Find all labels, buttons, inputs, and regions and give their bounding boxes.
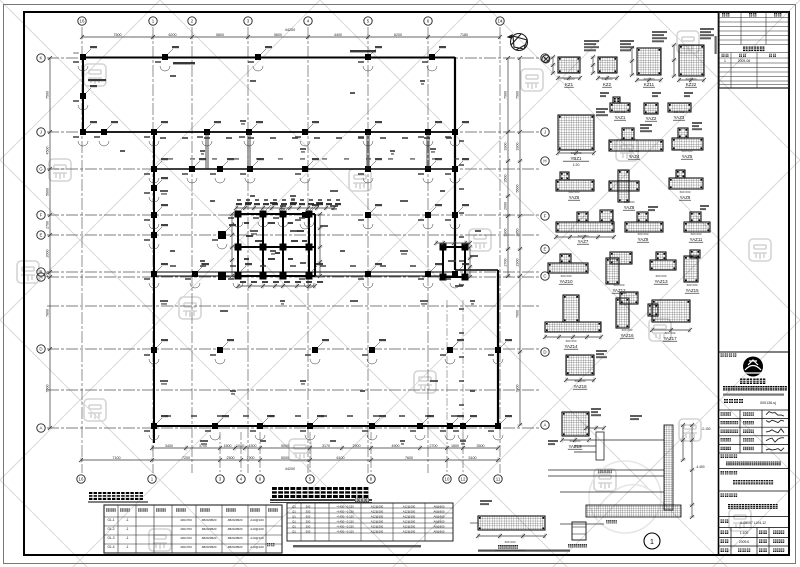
detail KZ1 bbox=[558, 57, 580, 73]
svg-text:7100: 7100 bbox=[113, 456, 121, 460]
svg-text:A: A bbox=[40, 275, 43, 280]
svg-text:G: G bbox=[39, 167, 43, 172]
svg-text:600 600: 600 600 bbox=[614, 283, 625, 287]
svg-text:-4.450~-0.150: -4.450~-0.150 bbox=[336, 510, 354, 514]
watermark circle logo bbox=[589, 461, 661, 533]
svg-text:000136-sj: 000136-sj bbox=[760, 401, 776, 405]
svg-text:4400: 4400 bbox=[334, 33, 342, 37]
section callout bubble 1 bbox=[644, 533, 660, 549]
construction unit bbox=[721, 455, 738, 458]
svg-text:1: 1 bbox=[650, 539, 654, 546]
detail YAZ16 bbox=[616, 298, 629, 328]
svg-text:1:100: 1:100 bbox=[740, 531, 749, 535]
svg-text:A10@100: A10@100 bbox=[250, 527, 264, 531]
svg-text:16: 16 bbox=[79, 477, 84, 482]
number row bbox=[721, 520, 729, 523]
svg-text:1600: 1600 bbox=[451, 444, 459, 448]
scattered annotation specks bbox=[120, 75, 481, 445]
svg-text:7600: 7600 bbox=[405, 456, 413, 460]
svg-text:A12@200: A12@200 bbox=[403, 530, 416, 534]
svg-text:600 600: 600 600 bbox=[505, 540, 516, 544]
svg-text:600 600: 600 600 bbox=[682, 149, 693, 153]
svg-text:F: F bbox=[544, 214, 547, 219]
column annotations bbox=[73, 46, 512, 440]
main left wall bbox=[153, 132, 155, 443]
bottom axis bubbles bbox=[77, 475, 85, 483]
plan vertical grid axes bbox=[82, 27, 500, 473]
svg-text:7500: 7500 bbox=[46, 91, 50, 99]
svg-text:KZ1: KZ1 bbox=[565, 82, 574, 87]
detail KZ11 bbox=[637, 48, 661, 75]
detail YAZ2 bbox=[644, 103, 658, 114]
project name section bbox=[721, 471, 738, 474]
svg-text:YAZ17: YAZ17 bbox=[663, 336, 677, 341]
title block design unit label bbox=[719, 351, 789, 353]
svg-text:600 600: 600 600 bbox=[665, 331, 676, 335]
svg-text:E: E bbox=[544, 247, 547, 252]
svg-text:600 600: 600 600 bbox=[571, 151, 582, 155]
svg-text:J: J bbox=[544, 130, 546, 135]
svg-text:YAZ8: YAZ8 bbox=[624, 205, 635, 210]
svg-text:A10@100: A10@100 bbox=[250, 536, 264, 540]
svg-text:600 600: 600 600 bbox=[615, 110, 626, 114]
top perimeter wall bbox=[83, 57, 455, 59]
svg-text:Q1: Q1 bbox=[292, 525, 296, 529]
wall section detail bbox=[548, 425, 681, 517]
svg-text:3300: 3300 bbox=[516, 143, 520, 151]
central core walls bbox=[238, 214, 315, 276]
svg-text:YAZ7: YAZ7 bbox=[578, 239, 589, 244]
row J wall bbox=[83, 131, 455, 133]
svg-text:2000: 2000 bbox=[504, 202, 508, 210]
svg-text:300: 300 bbox=[306, 510, 311, 514]
svg-text:600 600: 600 600 bbox=[691, 232, 702, 236]
core inner annotations bbox=[244, 222, 307, 260]
right lower wall bbox=[497, 270, 499, 426]
main drawing title bbox=[272, 487, 368, 498]
svg-text:Q1: Q1 bbox=[292, 515, 296, 519]
svg-text:-0.150: -0.150 bbox=[701, 427, 710, 431]
svg-text:6200: 6200 bbox=[169, 33, 177, 37]
svg-text:2900: 2900 bbox=[353, 444, 361, 448]
svg-text:GL-4: GL-4 bbox=[107, 545, 114, 549]
company logo emblem bbox=[743, 357, 763, 377]
svg-text:C: C bbox=[543, 274, 546, 279]
svg-text:2300: 2300 bbox=[516, 259, 520, 267]
row B wall bbox=[154, 271, 455, 273]
svg-text:300: 300 bbox=[306, 520, 311, 524]
right axis bubbles bbox=[541, 54, 549, 62]
svg-text:2700: 2700 bbox=[430, 444, 438, 448]
svg-text:600 600: 600 600 bbox=[638, 232, 649, 236]
bottom axis stubs bbox=[219, 432, 221, 473]
dim chain above core bbox=[236, 199, 341, 205]
svg-text:7900: 7900 bbox=[516, 91, 520, 99]
svg-text:A12@200: A12@200 bbox=[403, 520, 416, 524]
step wall right bbox=[455, 269, 498, 271]
detail YBZ1 bbox=[558, 115, 594, 150]
svg-text:16: 16 bbox=[80, 19, 85, 24]
wall table note bbox=[293, 545, 421, 547]
svg-text:3500: 3500 bbox=[504, 174, 508, 182]
svg-text:A12@200: A12@200 bbox=[371, 515, 384, 519]
left edge tiny vertical text bbox=[715, 36, 717, 54]
svg-text:7500: 7500 bbox=[114, 33, 122, 37]
detail YAZ3 bbox=[668, 103, 691, 112]
svg-text:Q1: Q1 bbox=[292, 520, 296, 524]
svg-text:600 600: 600 600 bbox=[575, 379, 586, 383]
svg-text:600 600: 600 600 bbox=[646, 111, 657, 115]
signature table bbox=[719, 410, 789, 453]
detail YAZ9a bbox=[669, 178, 703, 189]
svg-text:A12@200: A12@200 bbox=[371, 505, 384, 509]
svg-text:A-05007 LJ04-12: A-05007 LJ04-12 bbox=[740, 521, 766, 525]
svg-text:3300: 3300 bbox=[504, 142, 508, 150]
svg-text:1500: 1500 bbox=[249, 444, 257, 448]
svg-text:K: K bbox=[40, 56, 43, 61]
svg-text:-4.450~-0.150: -4.450~-0.150 bbox=[336, 505, 354, 509]
detail YAZ13 bbox=[684, 256, 698, 282]
svg-text:2500: 2500 bbox=[227, 456, 235, 460]
svg-text:2009.6: 2009.6 bbox=[739, 540, 749, 544]
svg-text:A6@600: A6@600 bbox=[434, 520, 445, 524]
svg-text:600 600: 600 600 bbox=[561, 274, 572, 278]
svg-text:600: 600 bbox=[73, 51, 78, 55]
svg-text:YAZ10: YAZ10 bbox=[559, 279, 573, 284]
right inner dimension chain bbox=[507, 58, 509, 276]
small opening detail bbox=[572, 522, 586, 540]
svg-text:A6@600: A6@600 bbox=[434, 510, 445, 514]
svg-text:14: 14 bbox=[498, 19, 503, 24]
right upper wall bbox=[454, 57, 456, 270]
svg-text:300: 300 bbox=[306, 530, 311, 534]
title block divider bbox=[718, 12, 720, 555]
bottom wall bbox=[154, 425, 498, 427]
central core columns bbox=[235, 211, 242, 218]
svg-text:YAZ19: YAZ19 bbox=[568, 444, 582, 449]
detail KZ22 bbox=[679, 45, 704, 76]
svg-text:4900: 4900 bbox=[392, 444, 400, 448]
row G wall bbox=[154, 168, 455, 170]
svg-text:2700: 2700 bbox=[46, 221, 50, 229]
english name bbox=[723, 394, 784, 396]
svg-text:12: 12 bbox=[461, 477, 466, 482]
svg-text:600 600: 600 600 bbox=[680, 190, 691, 194]
svg-text:1000: 1000 bbox=[236, 444, 244, 448]
left dimension line bbox=[49, 58, 51, 428]
svg-text:400x700: 400x700 bbox=[180, 518, 192, 522]
svg-text:-4.450~-0.150: -4.450~-0.150 bbox=[336, 530, 354, 534]
svg-text:600 600: 600 600 bbox=[687, 283, 698, 287]
svg-text:A6@600: A6@600 bbox=[434, 515, 445, 519]
bottom notes line bbox=[478, 550, 570, 552]
svg-text:1900: 1900 bbox=[247, 456, 255, 460]
svg-text:A: A bbox=[544, 423, 547, 428]
coupling beam elevation detail bbox=[478, 516, 545, 530]
detail YAZ19 bbox=[562, 412, 589, 436]
detail YAZ9 bbox=[625, 222, 663, 232]
svg-text:YBZ1: YBZ1 bbox=[571, 156, 583, 161]
svg-text:7180: 7180 bbox=[460, 33, 468, 37]
svg-text:7500: 7500 bbox=[46, 385, 50, 393]
detail KZ2 bbox=[598, 57, 617, 73]
svg-text:600 600: 600 600 bbox=[566, 339, 577, 343]
svg-text:YAZ18: YAZ18 bbox=[573, 384, 587, 389]
svg-text:3300: 3300 bbox=[504, 228, 508, 236]
svg-text:4500: 4500 bbox=[46, 147, 50, 155]
vertical dim left of core bbox=[231, 214, 233, 276]
extra unbubbled axis rows bbox=[47, 305, 540, 307]
svg-text:3500: 3500 bbox=[477, 444, 485, 448]
svg-text:YAZ14: YAZ14 bbox=[564, 344, 578, 349]
row A wall bbox=[154, 275, 455, 277]
svg-text:A12@200: A12@200 bbox=[403, 515, 416, 519]
svg-text:5600: 5600 bbox=[46, 188, 50, 196]
left upper wall bbox=[82, 57, 84, 133]
company full name bbox=[723, 386, 787, 391]
svg-text:3170: 3170 bbox=[322, 444, 330, 448]
svg-text:YAZ9: YAZ9 bbox=[638, 237, 649, 242]
detail YAZ18 bbox=[566, 355, 594, 375]
svg-text:300: 300 bbox=[306, 505, 311, 509]
svg-text:D: D bbox=[543, 350, 546, 355]
svg-text:KZ2: KZ2 bbox=[603, 82, 612, 87]
svg-text:A6@600: A6@600 bbox=[434, 505, 445, 509]
svg-text:600 600: 600 600 bbox=[622, 328, 633, 332]
detail YAZ6a bbox=[556, 180, 594, 191]
company CJK name bbox=[740, 379, 765, 385]
svg-text:2700: 2700 bbox=[504, 258, 508, 266]
svg-text:YAZ4: YAZ4 bbox=[629, 154, 640, 159]
svg-text:10: 10 bbox=[445, 477, 450, 482]
svg-text:400x700: 400x700 bbox=[180, 545, 192, 549]
GL table bbox=[104, 505, 282, 553]
detail YAZ12a bbox=[606, 258, 619, 284]
svg-text:2009-06: 2009-06 bbox=[738, 59, 751, 63]
svg-text:J: J bbox=[40, 130, 42, 135]
svg-text:600 600: 600 600 bbox=[674, 110, 685, 114]
detail YAZ11 bbox=[684, 222, 710, 232]
svg-text:Q1: Q1 bbox=[292, 505, 296, 509]
right core dims bbox=[436, 242, 470, 244]
svg-text:600 600: 600 600 bbox=[624, 200, 635, 204]
corridor partition stubs bbox=[205, 133, 207, 169]
svg-text:A12@200: A12@200 bbox=[371, 525, 384, 529]
svg-text:4B20/4B20: 4B20/4B20 bbox=[202, 545, 217, 549]
svg-text:400x700: 400x700 bbox=[180, 536, 192, 540]
svg-text:A6@600: A6@600 bbox=[434, 525, 445, 529]
svg-text:A12@200: A12@200 bbox=[371, 530, 384, 534]
svg-text:YAZ3: YAZ3 bbox=[674, 115, 685, 120]
detail YAZ17 bbox=[652, 300, 690, 322]
svg-text:4B20/4B20: 4B20/4B20 bbox=[228, 545, 243, 549]
certificate no bbox=[724, 399, 743, 403]
svg-text:300: 300 bbox=[306, 515, 311, 519]
svg-text:1:20: 1:20 bbox=[573, 163, 580, 167]
svg-text:11: 11 bbox=[496, 477, 501, 482]
svg-text:D: D bbox=[39, 347, 42, 352]
svg-text:600 600: 600 600 bbox=[656, 274, 667, 278]
svg-text:1500: 1500 bbox=[224, 444, 232, 448]
detail YAZ12 bbox=[650, 260, 676, 270]
svg-text:600 600: 600 600 bbox=[569, 190, 580, 194]
svg-text:-1: -1 bbox=[126, 518, 129, 522]
north compass bbox=[508, 34, 528, 51]
svg-text:YAZ11: YAZ11 bbox=[690, 237, 703, 242]
svg-text:YAZ15: YAZ15 bbox=[685, 288, 699, 293]
detail YAZ8 cross bbox=[609, 181, 639, 191]
svg-text:YAZ16: YAZ16 bbox=[620, 333, 634, 338]
svg-text:YAZ2: YAZ2 bbox=[646, 116, 657, 121]
plan columns bbox=[80, 54, 86, 60]
svg-text:6200: 6200 bbox=[394, 33, 402, 37]
svg-text:GL-1: GL-1 bbox=[107, 518, 114, 522]
svg-text:YAZ5: YAZ5 bbox=[682, 154, 693, 159]
svg-text:4B20/4B20: 4B20/4B20 bbox=[202, 536, 217, 540]
svg-text:600 600: 600 600 bbox=[629, 149, 640, 153]
top wall label bbox=[350, 50, 376, 52]
svg-text:5000: 5000 bbox=[281, 444, 289, 448]
detail YAZ5 bbox=[672, 138, 703, 150]
svg-text:44200: 44200 bbox=[285, 467, 295, 471]
svg-text:5800: 5800 bbox=[216, 33, 224, 37]
svg-text:6100: 6100 bbox=[337, 456, 345, 460]
svg-text:-4.450~-0.150: -4.450~-0.150 bbox=[336, 525, 354, 529]
svg-text:4B20/4B20: 4B20/4B20 bbox=[228, 518, 243, 522]
svg-text:400x700: 400x700 bbox=[180, 527, 192, 531]
svg-text:-1: -1 bbox=[126, 545, 129, 549]
detail YAZ1 bbox=[610, 103, 630, 112]
svg-text:600 600: 600 600 bbox=[578, 234, 589, 238]
svg-text:7800: 7800 bbox=[46, 309, 50, 317]
svg-text:2850: 2850 bbox=[516, 229, 520, 237]
svg-text:A12@200: A12@200 bbox=[403, 505, 416, 509]
svg-text:A10@100: A10@100 bbox=[250, 545, 264, 549]
bottom dimension lines bbox=[152, 447, 498, 449]
right side dimension column bbox=[519, 58, 521, 425]
revision table bbox=[719, 12, 789, 88]
svg-text:-4.450~-0.150: -4.450~-0.150 bbox=[336, 520, 354, 524]
svg-text:4B20/4B20: 4B20/4B20 bbox=[202, 527, 217, 531]
wall table bbox=[287, 503, 453, 541]
svg-text:A: A bbox=[40, 426, 43, 431]
svg-text:7900: 7900 bbox=[504, 91, 508, 99]
drawing name section bbox=[721, 494, 738, 497]
detail YAZ10 bbox=[548, 263, 588, 273]
svg-text:KZ22: KZ22 bbox=[686, 82, 697, 87]
svg-text:Q1: Q1 bbox=[292, 510, 296, 514]
left axis bubbles bbox=[37, 54, 45, 62]
svg-text:5000: 5000 bbox=[281, 456, 289, 460]
svg-text:KZ11: KZ11 bbox=[644, 82, 655, 87]
detail YAZ4 bbox=[609, 140, 663, 151]
svg-text:H: H bbox=[543, 159, 546, 164]
svg-text:F: F bbox=[40, 213, 43, 218]
svg-text:YAZ13: YAZ13 bbox=[654, 279, 668, 284]
svg-text:A12@200: A12@200 bbox=[403, 510, 416, 514]
isolated columns left of core bbox=[218, 231, 226, 239]
svg-text:4B20/4B20: 4B20/4B20 bbox=[202, 518, 217, 522]
svg-text:2000: 2000 bbox=[46, 250, 50, 258]
svg-text:A12@200: A12@200 bbox=[403, 525, 416, 529]
GL table title bbox=[89, 492, 143, 500]
dim chain below core bbox=[238, 285, 315, 287]
svg-text:YAZ9: YAZ9 bbox=[680, 195, 691, 200]
svg-text:44200: 44200 bbox=[285, 28, 296, 32]
svg-text:400: 400 bbox=[46, 272, 50, 278]
svg-text:-4.450: -4.450 bbox=[695, 465, 704, 469]
svg-text:5100: 5100 bbox=[469, 456, 477, 460]
svg-text:7200: 7200 bbox=[182, 456, 190, 460]
svg-text:YAZ1: YAZ1 bbox=[615, 115, 626, 120]
svg-text:A12@200: A12@200 bbox=[371, 510, 384, 514]
svg-text:GL-2: GL-2 bbox=[107, 527, 114, 531]
svg-text:A12@200: A12@200 bbox=[371, 520, 384, 524]
vertical dim right of core bbox=[319, 214, 321, 276]
svg-text:7300: 7300 bbox=[516, 385, 520, 393]
detail YAZ7 long bbox=[556, 222, 614, 232]
svg-text:-1: -1 bbox=[126, 527, 129, 531]
top dimension line 44200 bbox=[82, 36, 500, 38]
svg-text:Q1: Q1 bbox=[292, 530, 296, 534]
svg-text:300: 300 bbox=[306, 525, 311, 529]
svg-text:4B20/4B20: 4B20/4B20 bbox=[228, 527, 243, 531]
svg-text:1: 1 bbox=[724, 59, 726, 63]
svg-text:GL-3: GL-3 bbox=[107, 536, 114, 540]
svg-text:E: E bbox=[40, 233, 43, 238]
right small core walls bbox=[443, 247, 465, 277]
detail YAZ14 bbox=[545, 322, 601, 332]
svg-text:3400: 3400 bbox=[165, 444, 173, 448]
svg-text:A10@100: A10@100 bbox=[250, 518, 264, 522]
svg-text:600 600: 600 600 bbox=[570, 439, 581, 443]
svg-text:5600: 5600 bbox=[516, 185, 520, 193]
svg-text:7600: 7600 bbox=[516, 310, 520, 318]
top axis bubbles bbox=[78, 17, 86, 25]
svg-text:-1: -1 bbox=[126, 536, 129, 540]
svg-text:A6@600: A6@600 bbox=[434, 530, 445, 534]
plan horizontal grid axes bbox=[47, 58, 540, 428]
svg-text:-4.450~-0.150: -4.450~-0.150 bbox=[336, 515, 354, 519]
svg-text:4B20/4B20: 4B20/4B20 bbox=[228, 536, 243, 540]
svg-text:YAZ6: YAZ6 bbox=[569, 195, 580, 200]
svg-text:5600: 5600 bbox=[274, 33, 282, 37]
crossed axis end bubble bbox=[542, 55, 550, 63]
